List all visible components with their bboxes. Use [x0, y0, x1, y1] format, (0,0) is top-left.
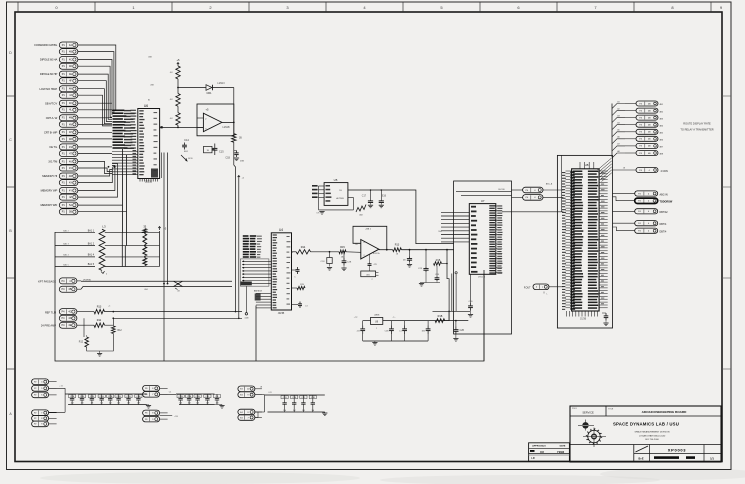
sub-circuit box U7 [454, 181, 512, 334]
connector P4 mid [59, 315, 77, 321]
svg-text:1M: 1M [71, 403, 74, 405]
wire down to U4 cluster [238, 179, 240, 319]
svg-text:C17: C17 [362, 196, 367, 198]
svg-text:A6: A6 [617, 136, 619, 139]
svg-text:DIPOLE 60 HA: DIPOLE 60 HA [40, 58, 58, 62]
svg-text:BA1 5: BA1 5 [88, 263, 95, 266]
connector P1 pin 4H [59, 86, 78, 92]
ground at R12 [97, 351, 102, 356]
svg-text:C4B: C4B [136, 396, 141, 398]
capacitor bank C26-C35 [65, 394, 147, 405]
capacitor C14 [181, 138, 193, 161]
company logo [578, 420, 606, 448]
svg-text:TITLE: TITLE [608, 409, 614, 411]
svg-text:DBT/4: DBT/4 [660, 223, 667, 226]
svg-text:1M: 1M [100, 403, 103, 405]
wire bus to P3 connectors [611, 104, 613, 158]
connector P3 pin 1 [612, 100, 663, 108]
connector P2 group lower [32, 410, 57, 427]
capacitor C16 on output net [225, 151, 244, 163]
diode CR1 [206, 82, 225, 95]
resistor R13 [77, 305, 111, 314]
capacitor under U3 [368, 254, 378, 271]
title block company name [613, 422, 679, 442]
capacitor 1B5 in filter [422, 321, 431, 341]
svg-text:4C: 4C [69, 59, 72, 62]
capacitor 4.B in filter [357, 321, 365, 341]
wire feedback to output [213, 88, 234, 123]
svg-text:LM113: LM113 [217, 82, 225, 85]
connector P1 pin 4E [59, 71, 78, 77]
svg-text:LR: LR [531, 457, 534, 460]
connector P3 pin 3 [612, 114, 663, 122]
IC U7 [469, 199, 496, 278]
capacitor C22 [403, 250, 412, 267]
svg-text:4B4: 4B4 [660, 125, 663, 127]
svg-text:BA1 4: BA1 4 [63, 254, 69, 257]
wire R12 loop [87, 347, 114, 351]
svg-text:SPACE DYNAMICS LAB / USU: SPACE DYNAMICS LAB / USU [613, 422, 679, 427]
connector P3 pin 4 [612, 122, 663, 130]
wire net to mux [105, 311, 243, 313]
svg-text:LOGAN UTAH 84322-4140: LOGAN UTAH 84322-4140 [639, 434, 666, 437]
capacitor C30 [468, 274, 473, 317]
wire [177, 106, 179, 112]
svg-text:BA1 3: BA1 3 [63, 242, 69, 245]
svg-text:+TP: +TP [354, 317, 358, 319]
svg-text:A7: A7 [617, 143, 619, 146]
capacitor C20 [453, 321, 464, 342]
resistor network R5 [143, 225, 160, 267]
wire feeders below U7 [447, 250, 452, 321]
svg-text:ALT24B: ALT24B [336, 197, 344, 200]
svg-text:4B8: 4B8 [660, 154, 663, 156]
connector P1 pin 4L [59, 107, 78, 113]
svg-text:1M: 1M [188, 403, 191, 405]
net stub labels [148, 57, 155, 102]
resistor R6 [232, 134, 243, 143]
wire U4 to R14 [292, 251, 297, 253]
IC U8 [572, 163, 600, 311]
capacitor C15 [204, 144, 225, 156]
svg-text:1M: 1M [196, 403, 199, 405]
svg-text:BA1 2: BA1 2 [88, 242, 95, 245]
capacitor C17 [362, 189, 373, 208]
svg-text:4K: 4K [69, 102, 72, 105]
connector P3 DBT42 [613, 209, 669, 215]
connector P1 pin 4S [59, 144, 78, 150]
svg-text:C1B: C1B [225, 157, 230, 160]
svg-text:U4: U4 [279, 228, 283, 232]
wires at U8 top [562, 155, 612, 212]
resistor R4 [170, 113, 180, 126]
side border zone ticks [7, 51, 732, 416]
svg-text:4N: 4N [69, 123, 72, 126]
capacitor C23 [418, 250, 429, 283]
signal label CRT B- WP [44, 130, 58, 134]
svg-text:A4: A4 [617, 122, 619, 125]
resistor R18 [434, 260, 448, 265]
svg-text:u: u [542, 287, 543, 289]
capacitor bank C33-C38 [255, 392, 325, 412]
svg-text:4: 4 [364, 242, 365, 244]
capacitor C18 [320, 252, 332, 270]
wire key passage net A [77, 280, 232, 282]
svg-text:1M: 1M [109, 403, 112, 405]
wire U7 bottom drops [455, 272, 457, 312]
svg-text:C3B: C3B [196, 396, 201, 398]
connector P1 pin 4N [59, 121, 78, 127]
svg-text:801 750-2000: 801 750-2000 [645, 439, 659, 441]
svg-text:2: 2 [376, 328, 377, 330]
svg-text:1M: 1M [117, 403, 120, 405]
connector P1 pin 4U [59, 158, 78, 164]
svg-text:REF TLM: REF TLM [45, 311, 56, 315]
svg-text:C2B: C2B [90, 396, 95, 398]
svg-text:1M: 1M [137, 403, 140, 405]
svg-text:U8: U8 [585, 163, 589, 167]
svg-text:+T4: +T4 [59, 386, 62, 388]
svg-text:CRT B- WP: CRT B- WP [44, 130, 58, 134]
svg-text:1B4: 1B4 [438, 231, 441, 233]
wire group2 feed [49, 386, 73, 413]
svg-text:4P: 4P [69, 131, 72, 134]
svg-text:+BB 1: +BB 1 [365, 229, 372, 231]
svg-text:BLM 1A: BLM 1A [373, 252, 380, 255]
capacitor C19 [341, 252, 351, 271]
svg-text:C2B: C2B [179, 396, 184, 398]
connector P1 pin 4A [59, 42, 78, 48]
svg-text:SERV/CE: SERV/CE [582, 411, 594, 415]
wire key passage net B [77, 287, 232, 292]
wires into U7 [441, 212, 469, 242]
wire U4 out stub1 [292, 267, 300, 279]
svg-text:F.OUT: F.OUT [524, 288, 531, 290]
wire U7 top nets [456, 189, 512, 195]
wire [234, 142, 237, 312]
U8 bottom pin stubs [567, 311, 598, 321]
connector P1 pin 4Z [59, 194, 78, 200]
svg-text:R12: R12 [118, 330, 123, 332]
svg-text:R15: R15 [340, 246, 345, 249]
wire U5 output net [348, 190, 454, 244]
U8 left pin stubs [562, 171, 575, 310]
connector P1 pin 5B [59, 209, 78, 215]
wire rail to C20 [445, 320, 469, 322]
svg-text:CR1: CR1 [206, 92, 212, 95]
svg-text:BA1 2: BA1 2 [63, 230, 69, 233]
resistor R15 [339, 246, 346, 258]
svg-text:4V: 4V [69, 167, 72, 170]
svg-text:MEMORY HI: MEMORY HI [42, 174, 57, 178]
resistor R16 [356, 205, 366, 217]
wire group3 lower [160, 416, 179, 418]
svg-text:A3: A3 [617, 114, 619, 117]
IC U5 [324, 178, 348, 205]
ground group4 [322, 412, 327, 416]
svg-text:4: 4 [292, 252, 293, 254]
connector P1 pin 4X [59, 180, 78, 186]
wire net2 to mux [105, 317, 243, 325]
wire U6 output to op-amp U2 [160, 126, 204, 128]
resistor box under U3 [361, 271, 379, 281]
svg-text:PROJ: PROJ [572, 408, 577, 410]
resistor R12 [112, 318, 123, 349]
wire vertical bus [122, 233, 125, 267]
connector P3 4CDN [613, 167, 668, 173]
resistor R12B [79, 318, 89, 347]
top border zone ruler [18, 2, 723, 12]
svg-text:4B: 4B [69, 51, 72, 54]
capacitor L4 in filter [399, 321, 407, 341]
capacitor C2B in filter [385, 321, 394, 341]
capacitor C16b [379, 189, 387, 208]
svg-text:4D: 4D [68, 317, 71, 320]
resistor R17 [393, 244, 402, 256]
svg-text:L3: L3 [102, 224, 106, 228]
svg-text:4B2: 4B2 [660, 111, 663, 113]
svg-text:BA1 4: BA1 4 [88, 254, 95, 257]
power +5 arrow mid [238, 176, 245, 180]
via at U4 [245, 286, 250, 319]
svg-text:SECBU: SECBU [498, 189, 505, 191]
wires into L3 [55, 230, 95, 267]
connector P1 pin 4T [59, 151, 78, 157]
connector P1 pin 5A [59, 202, 78, 208]
svg-text:C2B: C2B [70, 396, 75, 398]
connector E4 group upper [238, 386, 262, 398]
svg-text:4Y: 4Y [69, 189, 72, 192]
svg-text:Y2/92: Y2/92 [557, 450, 565, 454]
svg-text:A8: A8 [617, 150, 619, 153]
svg-text:MOD: MOD [188, 158, 193, 160]
signal label MEMORY WP [41, 189, 58, 193]
connector P3 DBT4B [613, 227, 667, 234]
svg-text:4D: 4D [69, 65, 72, 68]
ground group2 [146, 405, 151, 409]
svg-text:C15: C15 [219, 151, 224, 154]
svg-text:4 CDN: 4 CDN [661, 170, 668, 173]
signal label CRT A- W [46, 116, 58, 120]
L3 input labels [88, 229, 95, 266]
svg-text:+1M: +1M [174, 416, 178, 418]
svg-text:1M: 1M [127, 403, 130, 405]
svg-text:4B5: 4B5 [660, 133, 663, 135]
svg-text:1M: 1M [179, 403, 182, 405]
wire group into U4 [240, 259, 271, 286]
revision table [529, 443, 570, 462]
wire [177, 79, 179, 94]
connector P1 pin 4V [59, 165, 78, 171]
svg-text:SPACE MEASUREMENT DIVISION: SPACE MEASUREMENT DIVISION [634, 431, 669, 434]
connector P1 pin 4C [59, 57, 78, 63]
connector P4 B [512, 195, 564, 201]
signal label MEMORY HI [42, 174, 57, 178]
svg-text:CRT A- W: CRT A- W [46, 116, 58, 120]
svg-text:BA1 1: BA1 1 [88, 229, 95, 232]
svg-text:4X: 4X [69, 182, 72, 185]
title block frame [570, 406, 721, 462]
multiplexer MUX box [241, 282, 252, 286]
svg-text:2: 2 [364, 255, 365, 257]
svg-text:R13: R13 [395, 244, 400, 247]
svg-text:4BB: 4BB [240, 161, 245, 163]
connector P1 pin 4W [59, 173, 78, 179]
svg-text:A2: A2 [617, 107, 619, 110]
svg-text:C4B: C4B [80, 396, 85, 398]
svg-text:KPT PASSAGE: KPT PASSAGE [38, 280, 56, 284]
resistor R19 [435, 315, 445, 323]
connector P1 pin 4P [59, 129, 78, 135]
svg-text:C2B: C2B [460, 330, 465, 332]
wire C23 C24 bottom [419, 283, 440, 287]
svg-text:B+E: B+E [638, 457, 643, 461]
svg-text:A5: A5 [617, 129, 619, 132]
wire from U6 area down to analog section [162, 153, 169, 362]
svg-text:BA1 5: BA1 5 [63, 263, 69, 266]
svg-text:FORWARD CAT/BL: FORWARD CAT/BL [34, 43, 57, 47]
svg-text:A1: A1 [617, 100, 619, 103]
connector P3 pin 2 [612, 107, 663, 115]
connector F.OUT [524, 284, 564, 296]
svg-text:4S: 4S [69, 146, 72, 149]
connector P1 pin 4M [59, 115, 78, 121]
wire U4 to bus [255, 306, 257, 362]
svg-text:DBT/4: DBT/4 [660, 231, 667, 234]
svg-text:APPROVALS: APPROVALS [532, 445, 546, 448]
svg-text:AKC.A: AKC.A [546, 183, 553, 186]
svg-text:R12: R12 [79, 342, 84, 344]
svg-text:1M: 1M [302, 410, 305, 412]
capacitor bank C29-C32 [160, 392, 221, 405]
svg-text:E16: E16 [382, 196, 387, 198]
connector P3 pin 5 [612, 129, 663, 137]
connector P4 REF TLM [45, 309, 77, 315]
U6 bottom pin stubs [140, 179, 158, 182]
svg-text:MEMORY WP: MEMORY WP [41, 189, 58, 193]
svg-text:U6: U6 [144, 104, 148, 108]
svg-text:4H: 4H [69, 88, 72, 91]
wire group4 lower [255, 395, 265, 418]
svg-text:4U: 4U [170, 99, 173, 101]
wire filter bottom rail [363, 340, 428, 342]
svg-text:LM11B: LM11B [222, 127, 230, 129]
svg-text:4B6: 4B6 [660, 140, 663, 142]
wire bus from P1 lower pins to U6 [78, 161, 118, 197]
connector P4 24 PRE AMP [41, 322, 77, 328]
wire U2 output down [233, 122, 235, 133]
wire filter rail [354, 317, 449, 321]
wire L3 taps [105, 233, 145, 267]
connector P1 pin 4D [59, 63, 78, 69]
signal label MEMORY WD [40, 203, 57, 207]
svg-text:4B3: 4B3 [660, 118, 663, 120]
resistor R3 [170, 94, 180, 107]
svg-text:R14: R14 [301, 246, 306, 249]
net label AKC.A [546, 183, 553, 186]
svg-text:1M: 1M [311, 410, 314, 412]
svg-text:DBT/42: DBT/42 [660, 211, 669, 214]
svg-text:JR/3B: JR/3B [278, 312, 285, 315]
op-amp U2 [197, 104, 234, 136]
svg-text:B4: B4 [148, 100, 150, 102]
svg-text:1M: 1M [91, 403, 94, 405]
svg-text:4R: 4R [69, 138, 72, 141]
resistor R14 [292, 246, 311, 254]
svg-text:XP0003: XP0003 [668, 448, 687, 453]
wire to U7 net [401, 249, 453, 251]
U7 right stubs [496, 205, 503, 273]
svg-text:MEMORY WD: MEMORY WD [40, 203, 57, 207]
svg-text:C2B: C2B [108, 396, 113, 398]
svg-text:5A: 5A [69, 204, 72, 207]
svg-text:4U: 4U [69, 160, 72, 163]
net label cluster at U6 inputs [108, 110, 138, 175]
svg-text:R1B: R1B [438, 315, 443, 318]
filter U9 [371, 315, 383, 330]
svg-text:2: 2 [371, 279, 372, 281]
wire [177, 125, 179, 128]
connector P4 group3 lower [143, 410, 168, 422]
svg-text:4B1: 4B1 [660, 104, 663, 106]
svg-text:LOW NO HIGH: LOW NO HIGH [39, 87, 57, 91]
junction crossover [174, 281, 183, 292]
svg-text:4: 4 [106, 274, 107, 276]
signal label FORWARD CAT/BL [34, 43, 57, 47]
svg-text:C2B: C2B [126, 396, 131, 398]
wire U4 out stub3 [292, 302, 309, 309]
svg-text:1M: 1M [283, 410, 286, 412]
connector P3 TODOROW [613, 197, 673, 204]
svg-text:R2B: R2B [300, 284, 305, 286]
svg-text:4B7: 4B7 [660, 147, 663, 149]
resistor R2 [170, 66, 180, 79]
connector P1 pin 4F [59, 78, 78, 84]
wire bus from P1 upper pins to U6 [78, 45, 116, 126]
connector P4 KPT PASSAGE B [59, 280, 91, 293]
wire bus from P1 middle pins to U6 [78, 103, 112, 153]
svg-text:4M: 4M [69, 117, 72, 120]
svg-text:1/1: 1/1 [710, 457, 714, 461]
wire U3 output [379, 249, 393, 251]
signal label 3 E /TM [48, 160, 58, 164]
wire R14 to R15 [311, 251, 340, 253]
svg-text:4U: 4U [170, 118, 173, 120]
net label cluster at U4 [243, 235, 262, 258]
svg-text:R13: R13 [97, 305, 102, 308]
connector P1 pin 4B [59, 49, 78, 55]
U8 right pin stubs [599, 171, 608, 308]
wire above filter [433, 311, 471, 321]
connector P1 pin 4J [59, 92, 78, 98]
svg-text:24 PRE AMP: 24 PRE AMP [41, 324, 56, 328]
wire U5 pin to R16 [348, 198, 354, 210]
connector E4 group lower [238, 409, 262, 420]
wires into U5 [312, 185, 324, 210]
connector P3 DBT4A [613, 221, 667, 227]
svg-text:XU: XU [540, 450, 544, 454]
svg-text:C2B: C2B [347, 262, 352, 264]
sub-circuit box U8 [557, 155, 612, 328]
svg-text:3 E T/L: 3 E T/L [49, 145, 58, 149]
svg-text:LMBB: LMBB [374, 315, 380, 317]
title block number fields [570, 445, 721, 463]
svg-text:C2B: C2B [385, 331, 390, 333]
wire from P1 bottom pins down to L3 [78, 149, 127, 246]
wire group4 tag [260, 386, 263, 388]
resistor R11 [77, 319, 105, 328]
connector P2 group upper [32, 379, 57, 398]
